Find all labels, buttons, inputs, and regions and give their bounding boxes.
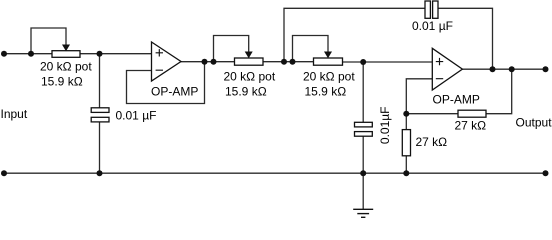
wire: node after R3 down to capacitor C2 bbox=[362, 62, 364, 122]
capacitor C1 plate bottom bbox=[91, 117, 109, 122]
potentiometer R3 body bbox=[314, 58, 343, 65]
op-amp U1 bbox=[152, 42, 182, 81]
junction: output terminal bottom bbox=[543, 170, 549, 176]
junction: output terminal top bbox=[543, 66, 549, 72]
junction: C3 output tap bbox=[490, 66, 496, 72]
wire: feedback node down to resistor R4 bbox=[405, 114, 407, 130]
svg-text:20 kΩ pot: 20 kΩ pot bbox=[40, 60, 92, 74]
wire: pot R2 to pot R3 bbox=[263, 61, 314, 63]
wire: pot R1 to op-amp U1 + input bbox=[80, 53, 152, 55]
capacitor C2 plate bottom bbox=[355, 132, 373, 137]
svg-text:15.9 kΩ: 15.9 kΩ bbox=[305, 85, 347, 99]
wire: U1 output to pot R2 bbox=[181, 61, 235, 63]
resistor R4 27k body bbox=[402, 130, 410, 156]
junction: R3 wiper tap bbox=[290, 59, 296, 65]
wire: input top rail to pot R1 bbox=[4, 53, 52, 55]
op-amp U2 bbox=[432, 48, 462, 90]
svg-text:OP-AMP: OP-AMP bbox=[151, 85, 198, 99]
wire: resistor R5 to output node bbox=[486, 69, 512, 114]
wire: pot R3 to op-amp U2 + input bbox=[343, 61, 433, 63]
junction: input terminal bottom bbox=[1, 170, 7, 176]
wire: resistor R4 to ground rail bbox=[405, 156, 407, 173]
junction: U2 feedback node bbox=[403, 111, 409, 117]
wire: top coupling rail to capacitor C3 bbox=[284, 8, 425, 61]
svg-text:27 kΩ: 27 kΩ bbox=[416, 135, 448, 149]
svg-text:0.01 µF: 0.01 µF bbox=[116, 109, 157, 123]
svg-text:Input: Input bbox=[1, 107, 28, 121]
wire: pot R2 wiper loop bbox=[214, 36, 249, 62]
wiper arrow of R3 bbox=[324, 52, 332, 59]
junction: top rail tap bbox=[281, 59, 287, 65]
junction: input terminal top bbox=[1, 51, 7, 57]
svg-text:OP-AMP: OP-AMP bbox=[433, 92, 480, 106]
junction: R1/C1 node bbox=[97, 51, 103, 57]
ground bbox=[353, 209, 373, 217]
wiper arrow of R2 bbox=[245, 52, 253, 59]
wire: capacitor C3 to output node bbox=[439, 8, 493, 69]
capacitor C3 plate right bbox=[433, 1, 438, 18]
wiper arrow of R1 bbox=[62, 45, 70, 52]
resistor R5 27k body bbox=[458, 110, 486, 117]
svg-text:15.9 kΩ: 15.9 kΩ bbox=[225, 85, 267, 99]
wire: bottom ground rail bbox=[4, 172, 546, 174]
junction: R4 ground node bbox=[403, 170, 409, 176]
capacitor C3 plate left bbox=[425, 1, 430, 18]
wire: capacitor C2 to ground rail bbox=[362, 136, 364, 173]
wire: U2 - input to feedback node bbox=[406, 79, 432, 114]
capacitor C1 plate top bbox=[91, 108, 109, 113]
junction: R3/C2 node bbox=[360, 59, 366, 65]
potentiometer R2 body bbox=[235, 58, 264, 65]
junction: C1 ground node bbox=[97, 170, 103, 176]
wire: node at R1 down to capacitor C1 bbox=[99, 54, 101, 108]
potentiometer R1 body bbox=[52, 51, 80, 58]
svg-text:0.01 µF: 0.01 µF bbox=[412, 19, 453, 33]
junction: ground node bbox=[360, 170, 366, 176]
svg-text:Output: Output bbox=[516, 115, 552, 129]
junction: U1 output feedback tap bbox=[202, 59, 208, 65]
junction: R5 output tap bbox=[509, 66, 515, 72]
svg-text:0.01µF: 0.01µF bbox=[378, 106, 392, 144]
svg-text:27 kΩ: 27 kΩ bbox=[455, 119, 487, 133]
wire: pot R3 wiper loop bbox=[293, 36, 329, 62]
capacitor C2 plate top bbox=[355, 122, 373, 127]
svg-text:20 kΩ pot: 20 kΩ pot bbox=[224, 69, 276, 83]
wire: ground stem bbox=[362, 173, 364, 209]
wire: U1 feedback from - input to output node bbox=[127, 62, 205, 104]
junction: R2 wiper tap bbox=[211, 59, 217, 65]
svg-text:15.9 kΩ: 15.9 kΩ bbox=[41, 74, 83, 88]
wire: U2 output line bbox=[462, 68, 545, 70]
wire: capacitor C1 to ground rail bbox=[99, 123, 101, 174]
svg-text:20 kΩ pot: 20 kΩ pot bbox=[303, 69, 355, 83]
junction: R1 wiper tap bbox=[28, 51, 34, 57]
wire: pot R1 wiper loop bbox=[31, 28, 66, 54]
wire: feedback node to resistor R5 bbox=[406, 113, 458, 115]
